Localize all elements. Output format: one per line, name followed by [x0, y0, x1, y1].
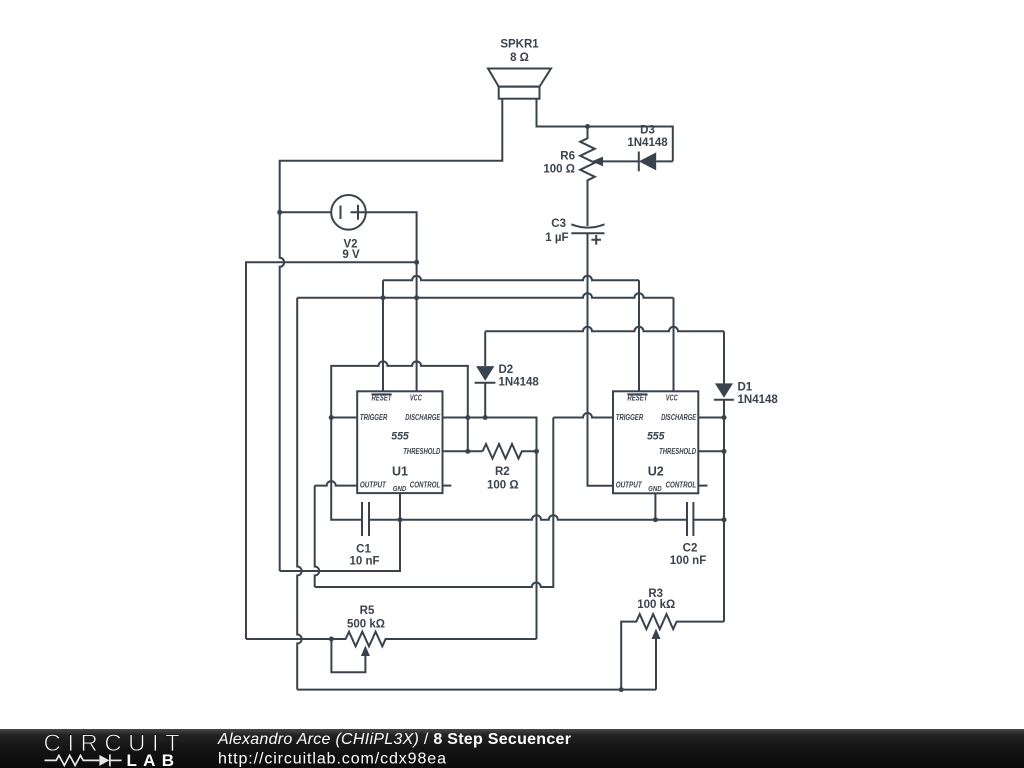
IC U2 555 timer — [613, 391, 698, 493]
svg-text:1 µF: 1 µF — [545, 232, 568, 244]
node U2 threshold junction — [722, 449, 727, 454]
svg-text:CONTROL: CONTROL — [410, 481, 441, 490]
svg-text:D1: D1 — [738, 381, 753, 393]
node R2 right junction — [534, 449, 539, 454]
svg-text:1N4148: 1N4148 — [738, 394, 779, 406]
wire U1 output vertical down and right to U2 trigger line y=587 — [315, 418, 554, 588]
resistor R5 500k (pot, horizontal) — [246, 605, 537, 646]
node junction speaker/R6 — [585, 124, 590, 129]
wire speaker left terminal down-left to V2 minus node — [280, 99, 503, 213]
node U1 vcc/vcc-bus junction — [414, 295, 419, 300]
wire U2 GND pin — [654, 493, 656, 519]
svg-text:TRIGGER: TRIGGER — [360, 413, 388, 422]
node R5 left junction — [329, 637, 334, 642]
svg-text:U2: U2 — [648, 465, 664, 479]
wire reset bus y=280.3 (U1 RESET to U2 RESET) with hops — [383, 276, 639, 281]
svg-text:CONTROL: CONTROL — [666, 481, 697, 490]
wire speaker right terminal to D3 top corner — [537, 99, 673, 162]
node U2 discharge/D1 junction — [722, 415, 727, 420]
wire U1 trigger-top link y=365.9 with hops — [331, 361, 468, 417]
svg-text:Alexandro Arce (CHIiPL3X) / 8: Alexandro Arce (CHIiPL3X) / 8 Step Secue… — [217, 731, 571, 748]
node discharge/link junction — [465, 415, 470, 420]
wire rail to R5 left (y=262.3) — [246, 262, 417, 639]
wire U2 RESET pin vertical — [638, 280, 640, 391]
wire right rail D1 down to R3 right — [723, 418, 725, 622]
svg-text:http://circuitlab.com/cdx98ea: http://circuitlab.com/cdx98ea — [218, 750, 447, 767]
wire U2 THRESHOLD — [698, 450, 724, 452]
svg-text:9 V: 9 V — [342, 249, 360, 261]
svg-text:C2: C2 — [683, 543, 698, 555]
svg-text:THRESHOLD: THRESHOLD — [659, 447, 696, 456]
wire C3 bottom long vertical down to U2 OUTPUT — [588, 233, 614, 486]
wire U2 VCC pin vertical — [673, 298, 675, 392]
svg-text:OUTPUT: OUTPUT — [360, 481, 387, 490]
wire U1-output rail vertical x=314.7 hop over y=571 — [315, 486, 320, 587]
wire long vcc-rail vertical x=297.2 with hops down to bottom wire — [297, 298, 302, 690]
resistor R2 100 Ohm — [483, 444, 537, 491]
wire vcc bus y=297.7 with hops — [297, 293, 673, 298]
IC U1 555 timer — [357, 391, 442, 493]
svg-text:OUTPUT: OUTPUT — [616, 481, 643, 490]
wire U1 RESET pin vertical — [382, 280, 384, 391]
svg-text:8 Ω: 8 Ω — [510, 52, 529, 64]
node U1 reset/vcc-bus junction — [381, 295, 386, 300]
wire diode bus y=331.3 (D2 top to D1 top) with hops — [485, 327, 724, 332]
node C2/right-rail junction — [722, 517, 727, 522]
speaker SPKR1 8 Ohm — [488, 39, 551, 99]
capacitor C3 1uF (polarized) — [545, 218, 604, 245]
wiper arrow of R6 from D3 — [592, 157, 639, 167]
svg-text:C1: C1 — [356, 543, 371, 555]
wire R5 wiper loop with arrow — [331, 639, 370, 672]
wire U1 DISCHARGE to right corner — [443, 418, 537, 452]
svg-text:TRIGGER: TRIGGER — [616, 413, 644, 422]
wire U2 CONTROL stub — [698, 485, 707, 487]
node U1 GND junction — [398, 517, 403, 522]
diode D3 1N4148 — [627, 124, 672, 171]
svg-text:R5: R5 — [360, 605, 375, 617]
node R3 left / bottom rail junction — [619, 687, 624, 692]
svg-text:555: 555 — [391, 431, 409, 443]
svg-text:D2: D2 — [499, 364, 514, 376]
CircuitLab logo wordmark — [44, 730, 187, 768]
wire U1 CONTROL stub — [443, 485, 452, 487]
svg-text:U1: U1 — [392, 465, 408, 479]
svg-text:100 Ω: 100 Ω — [487, 479, 519, 491]
wire U1 TRIGGER — [331, 417, 357, 419]
wire R3 wiper with arrow — [652, 629, 661, 690]
svg-text:10 nF: 10 nF — [349, 555, 379, 567]
svg-text:VCC: VCC — [410, 394, 422, 403]
wire ground line C1 to C2 with hops — [369, 515, 687, 520]
svg-text:DISCHARGE: DISCHARGE — [405, 413, 440, 422]
resistor R6 (rheostat, vertical) — [543, 127, 594, 227]
svg-text:DISCHARGE: DISCHARGE — [661, 413, 696, 422]
wire U2 TRIGGER with hop — [553, 413, 613, 418]
svg-text:VCC: VCC — [666, 394, 678, 403]
wire U1 THRESHOLD — [443, 450, 483, 452]
svg-text:500 kΩ: 500 kΩ — [347, 618, 385, 630]
svg-text:GND: GND — [648, 486, 662, 493]
svg-text:100 kΩ: 100 kΩ — [637, 599, 675, 611]
wire V2 plus to positive rail node — [366, 212, 417, 262]
node V2 plus rail junction — [414, 260, 419, 265]
svg-text:SPKR1: SPKR1 — [500, 39, 539, 51]
node V2 minus junction — [277, 210, 282, 215]
resistor R3 100k (pot, horizontal) — [621, 588, 724, 690]
svg-text:THRESHOLD: THRESHOLD — [403, 447, 440, 456]
svg-text:100 Ω: 100 Ω — [543, 163, 575, 175]
wire VCC rail continues down to U1 — [416, 262, 418, 297]
capacitor C2 100 nF — [670, 502, 706, 567]
footer bar — [0, 729, 1024, 768]
wire U2 DISCHARGE — [698, 417, 724, 419]
voltage source V2 9V — [331, 195, 366, 261]
wire V2 minus stub — [280, 211, 332, 213]
wire U1 VCC pin vertical — [416, 298, 418, 392]
svg-text:R2: R2 — [495, 466, 510, 478]
node U1 trigger junction — [329, 415, 334, 420]
diode D2 1N4148 — [475, 331, 540, 417]
svg-text:1N4148: 1N4148 — [499, 377, 540, 389]
svg-text:R6: R6 — [560, 151, 575, 163]
wire C2 right to right rail — [693, 519, 724, 521]
svg-text:LAB: LAB — [127, 751, 175, 768]
node threshold/link junction — [465, 449, 470, 454]
wire C1 left connection from trigger node — [331, 418, 362, 520]
svg-text:1N4148: 1N4148 — [627, 137, 668, 149]
wire U1 GND pin down through node to y=571 — [280, 493, 400, 571]
diode D1 1N4148 — [714, 331, 778, 417]
node U2 GND junction — [653, 517, 658, 522]
wire left ground rail x=279.7 with hop over y=262.3 — [280, 212, 285, 571]
logo resistor-diode glyph — [45, 754, 122, 766]
node discharge/D2 junction — [483, 415, 488, 420]
wire bottom rail y=689.6 — [297, 689, 656, 691]
wire U1 OUTPUT left with hop — [315, 481, 358, 486]
svg-text:100 nF: 100 nF — [670, 555, 706, 567]
svg-text:555: 555 — [647, 431, 665, 443]
svg-text:C3: C3 — [551, 218, 566, 230]
svg-text:D3: D3 — [640, 124, 655, 136]
wire link vertical discharge-threshold — [467, 418, 469, 452]
wire R2-right vertical down to R5 right — [536, 451, 538, 639]
capacitor C1 10 nF — [349, 502, 379, 567]
svg-text:GND: GND — [393, 486, 407, 493]
